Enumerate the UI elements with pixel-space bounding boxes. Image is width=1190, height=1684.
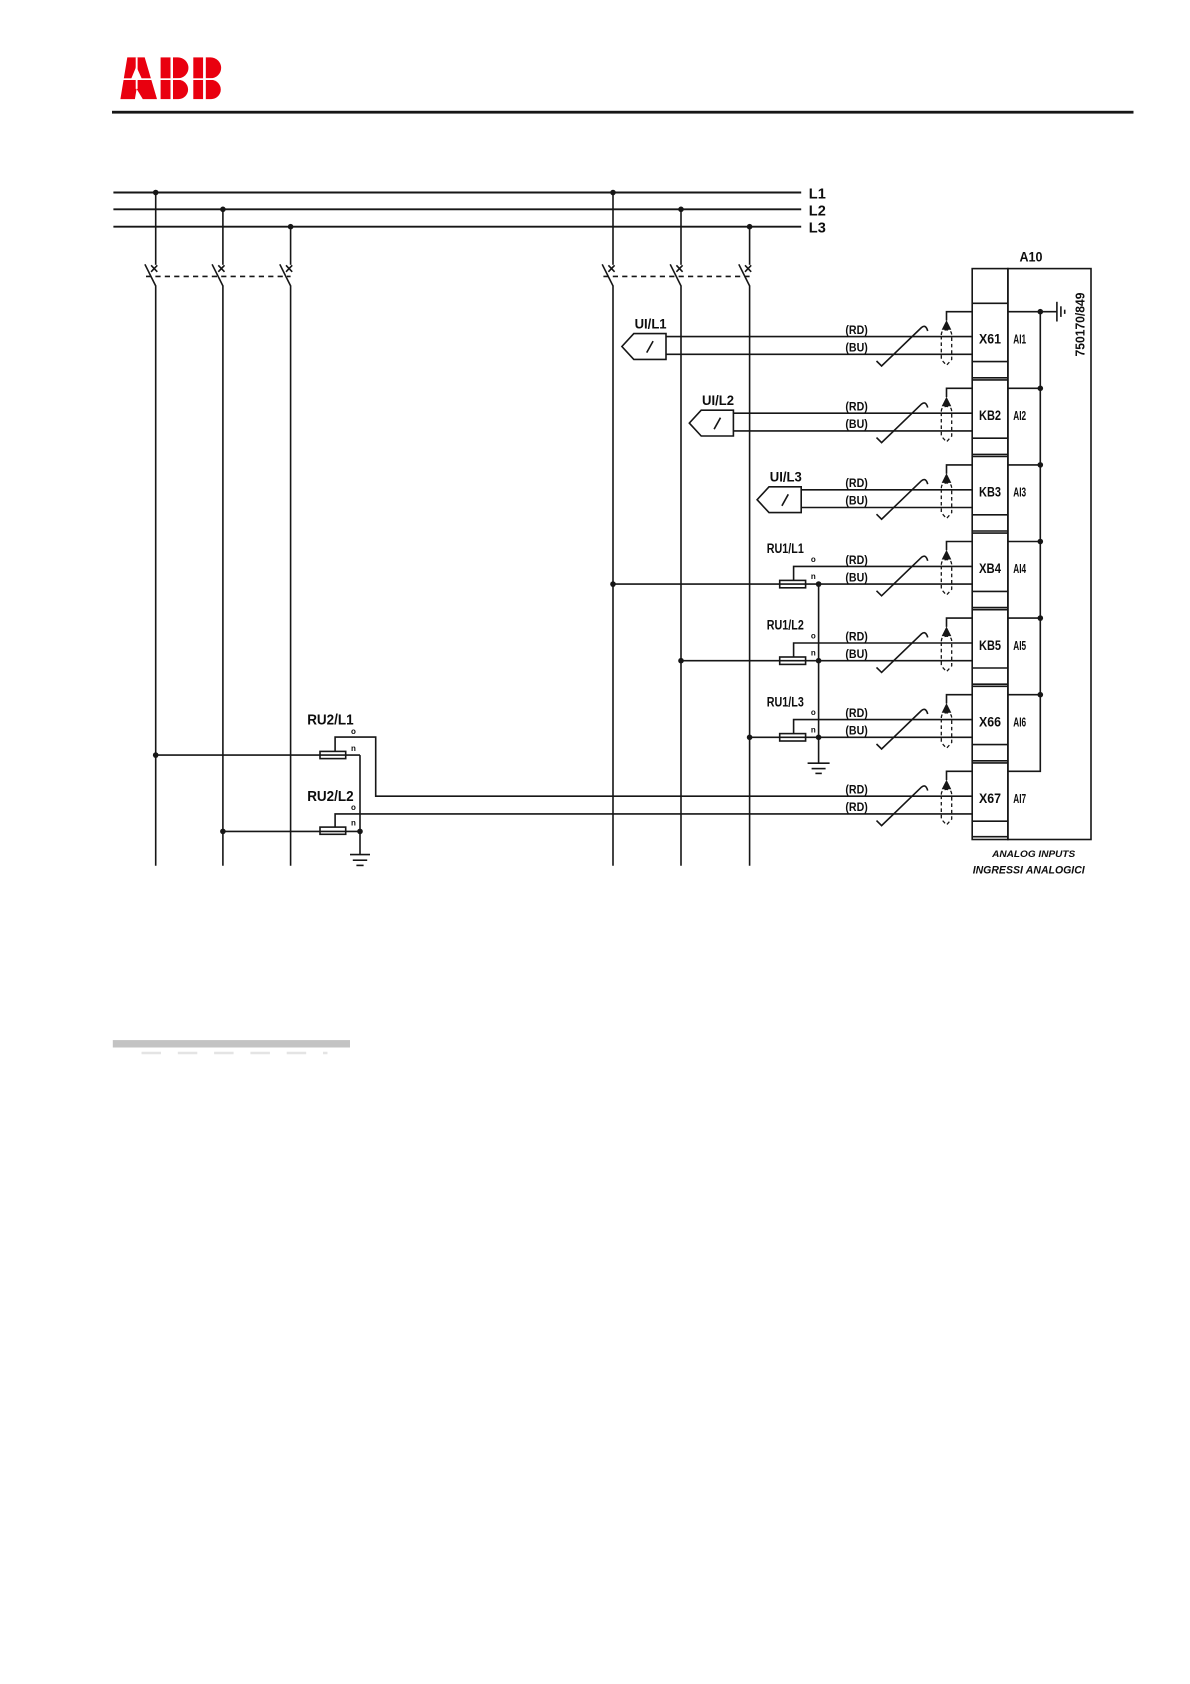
svg-text:UI/L1: UI/L1 [635, 316, 667, 331]
svg-text:AI1: AI1 [1013, 332, 1026, 346]
wire phase to RU1/L1 and on to terminal (BU) [613, 583, 972, 585]
twisted pair symbol channel 5 [877, 633, 928, 673]
twisted pair symbol channel 4 [877, 556, 928, 596]
svg-text:(BU): (BU) [845, 724, 867, 738]
wire drop from bus [749, 227, 751, 265]
wire shield drain channel 3 [947, 465, 973, 474]
svg-text:n: n [351, 744, 356, 753]
node: junction phase drop / RU1 wire [610, 581, 616, 587]
ABB logo [116, 57, 224, 99]
wire phase L2 to RU2/L2 [223, 830, 360, 832]
svg-text:750170/849: 750170/849 [1072, 293, 1087, 357]
wire shield drain inside block channel 5 [1008, 617, 1040, 619]
wire drop from bus [680, 209, 682, 264]
node: junction on ground bus channel 6 [1038, 692, 1044, 698]
svg-text:o: o [351, 727, 356, 736]
wire shield drain inside block channel 4 [1008, 541, 1040, 543]
node: junction on ground bus channel 3 [1038, 462, 1044, 468]
node: junction on bus at x=750 [747, 224, 753, 230]
switch contact Q2 pole L2 [670, 264, 682, 286]
svg-text:(BU): (BU) [845, 570, 867, 584]
wire phase to RU1/L3 and on to terminal (BU) [750, 736, 973, 738]
wire BU from UI/L2 to terminal [733, 430, 972, 432]
wire BU from UI/L1 to terminal [666, 353, 972, 355]
wire drop below switch [290, 286, 292, 865]
svg-text:(RD): (RD) [845, 476, 867, 490]
svg-text:XB4: XB4 [979, 560, 1001, 576]
terminal cell divider [972, 302, 1008, 304]
wire RD from UI/L1 to terminal [666, 336, 972, 338]
node: junction on bus at x=156 [153, 190, 159, 196]
cable shield channel 6 [941, 703, 951, 748]
wire drop from bus [222, 209, 224, 264]
separator bar (grey) [113, 1040, 350, 1047]
wire shield drain inside block channel 1 [1008, 311, 1040, 313]
switch contact Q1 pole L3 [280, 264, 292, 286]
svg-text:UI/L2: UI/L2 [702, 393, 734, 408]
svg-text:n: n [811, 649, 816, 658]
svg-text:ANALOG INPUTS: ANALOG INPUTS [991, 849, 1076, 860]
voltage transducer UI/L1 [622, 316, 667, 359]
svg-text:KB3: KB3 [979, 484, 1001, 500]
bus L3 [113, 221, 825, 237]
switch contact Q2 pole L1 [602, 264, 614, 286]
wire shield drain channel 4 [947, 542, 973, 551]
ground symbol below RU2/L2 [350, 831, 370, 865]
node: junction on ground bus channel 5 [1038, 615, 1044, 621]
wire shield drain inside block channel 2 [1008, 387, 1040, 389]
node: junction on bus at x=291 [288, 224, 294, 230]
ground symbol below RU1/L3 [808, 763, 830, 773]
terminal cell divider [972, 456, 1008, 458]
twisted pair symbol channel 1 [877, 326, 928, 366]
wire shield drain inside block channel 3 [1008, 464, 1040, 466]
wire phase L1 to RU2/L1 [156, 754, 360, 756]
svg-text:(RD): (RD) [845, 783, 867, 797]
svg-text:A10: A10 [1020, 249, 1043, 264]
svg-text:(BU): (BU) [845, 341, 867, 355]
cable shield channel 1 [941, 320, 951, 365]
wire internal ground bus [1008, 312, 1040, 772]
cable shield channel 4 [941, 550, 951, 595]
svg-text:(RD): (RD) [845, 323, 867, 337]
terminal cell divider [972, 762, 1008, 764]
svg-text:n: n [811, 725, 816, 734]
wire drop below switch [222, 286, 224, 865]
cable shield channel 7 [941, 780, 951, 825]
wire shield drain channel 5 [947, 618, 973, 627]
wire shield drain channel 1 [947, 312, 973, 321]
node: junction L1 drop / RU2 wire [153, 752, 159, 758]
node: junction RU1/L1 common [816, 581, 822, 587]
svg-text:AI4: AI4 [1013, 562, 1026, 576]
svg-text:L1: L1 [809, 187, 826, 203]
node: junction phase drop / RU1 wire [747, 735, 753, 741]
wire drop from bus [290, 227, 292, 265]
switch contact Q1 pole L2 [212, 264, 224, 286]
wire RU2 common down [359, 755, 361, 831]
node: junction on ground bus channel 4 [1038, 539, 1044, 545]
svg-text:AI7: AI7 [1013, 792, 1026, 806]
resistor RU1/L1 [767, 541, 816, 588]
twisted pair symbol channel 2 [877, 403, 928, 443]
mechanical linkage (dashed) right switch group [603, 275, 749, 277]
svg-text:AI2: AI2 [1013, 409, 1026, 423]
resistor RU1/L2 [767, 618, 816, 665]
svg-text:AI6: AI6 [1013, 715, 1026, 729]
svg-text:L3: L3 [809, 221, 826, 237]
wire common chain of RU1 resistors [818, 584, 820, 763]
node: junction L2 drop / RU2 wire [220, 829, 226, 835]
wire drop below switch [155, 286, 157, 865]
wire phase to RU1/L2 and on to terminal (BU) [681, 660, 972, 662]
wire tap from RU1/L2 to RD row [794, 643, 973, 657]
node: junction on bus at x=681 [678, 207, 684, 213]
voltage transducer UI/L3 [757, 470, 802, 513]
svg-text:RU2/L2: RU2/L2 [307, 789, 354, 805]
svg-text:INGRESSI ANALOGICI: INGRESSI ANALOGICI [973, 865, 1086, 877]
twisted pair symbol channel 3 [877, 480, 928, 520]
svg-text:o: o [811, 708, 816, 717]
svg-text:(BU): (BU) [845, 647, 867, 661]
node: junction RU1/L3 common [816, 735, 822, 741]
mechanical linkage (dashed) left switch group [146, 275, 291, 277]
bus L1 [113, 187, 825, 203]
wire drop below switch [612, 286, 614, 865]
svg-text:o: o [351, 803, 356, 812]
node: junction RU2 common [357, 829, 363, 835]
svg-text:n: n [351, 819, 356, 828]
earth symbol A10 [1057, 302, 1065, 322]
svg-text:RU1/L2: RU1/L2 [767, 618, 804, 633]
terminal cell divider [972, 685, 1008, 687]
bus L2 [113, 203, 825, 219]
wire tap RU2/L2 to X67 BU row [335, 814, 972, 827]
node: junction on ground bus channel 1 [1038, 309, 1044, 315]
cable shield channel 3 [941, 473, 951, 518]
svg-text:X66: X66 [979, 713, 1001, 729]
wire tap from RU1/L3 to RD row [794, 720, 973, 734]
terminal cell divider (bottom) [972, 836, 1008, 838]
wire shield drain channel 7 [947, 771, 973, 780]
node: junction on ground bus channel 2 [1038, 386, 1044, 392]
resistor RU2/L1 [307, 712, 356, 758]
cable shield channel 5 [941, 627, 951, 672]
svg-text:n: n [811, 572, 816, 581]
wire RD from UI/L2 to terminal [733, 412, 972, 414]
wire tap RU2/L1 to X67 RD row [335, 737, 972, 796]
wire drop from bus [612, 193, 614, 265]
svg-text:(RD): (RD) [845, 400, 867, 414]
node: junction on bus at x=613 [610, 190, 616, 196]
wire RD from UI/L3 to terminal [801, 489, 972, 491]
svg-text:L2: L2 [809, 203, 826, 219]
svg-text:(RD): (RD) [845, 553, 867, 567]
terminal cell divider [972, 532, 1008, 534]
terminal cell divider [972, 379, 1008, 381]
header rule [112, 111, 1134, 114]
wire drop from bus [155, 193, 157, 265]
svg-text:(RD): (RD) [845, 629, 867, 643]
twisted pair symbol channel 6 [877, 709, 928, 749]
cable shield channel 2 [941, 397, 951, 442]
wire to chassis earth [1040, 311, 1056, 313]
svg-text:RU1/L1: RU1/L1 [767, 541, 804, 556]
node: junction RU1/L2 common [816, 658, 822, 664]
svg-text:(BU): (BU) [845, 494, 867, 508]
svg-text:RU2/L1: RU2/L1 [307, 712, 354, 728]
node: junction phase drop / RU1 wire [678, 658, 684, 664]
svg-text:UI/L3: UI/L3 [770, 470, 802, 485]
svg-text:RU1/L3: RU1/L3 [767, 694, 804, 709]
svg-text:(RD): (RD) [845, 706, 867, 720]
svg-text:AI3: AI3 [1013, 486, 1026, 500]
svg-text:KB2: KB2 [979, 407, 1001, 423]
switch contact Q2 pole L3 [739, 264, 751, 286]
svg-text:X67: X67 [979, 790, 1001, 806]
svg-text:(BU): (BU) [845, 417, 867, 431]
switch contact Q1 pole L1 [145, 264, 157, 286]
svg-text:o: o [811, 555, 816, 564]
resistor RU2/L2 [307, 789, 356, 834]
wire BU from UI/L3 to terminal [801, 507, 972, 509]
svg-text:X61: X61 [979, 330, 1001, 346]
wire tap from RU1/L1 to RD row [794, 566, 973, 580]
module A10 outline [1008, 269, 1091, 840]
voltage transducer UI/L2 [689, 393, 734, 436]
svg-text:KB5: KB5 [979, 637, 1001, 653]
svg-text:AI5: AI5 [1013, 639, 1026, 653]
resistor RU1/L3 [767, 694, 816, 741]
wire shield drain channel 6 [947, 695, 973, 704]
terminal cell divider [972, 609, 1008, 611]
svg-text:(RD): (RD) [845, 800, 867, 814]
wire shield drain channel 2 [947, 388, 973, 397]
node: junction on bus at x=223 [220, 207, 226, 213]
faint dashes [142, 1052, 328, 1055]
wire shield drain inside block channel 6 [1008, 694, 1040, 696]
wire drop below switch [749, 286, 751, 865]
wire drop below switch [680, 286, 682, 865]
svg-text:o: o [811, 632, 816, 641]
twisted pair symbol channel 7 [877, 786, 928, 826]
terminal strip X6 outline [972, 269, 1008, 840]
